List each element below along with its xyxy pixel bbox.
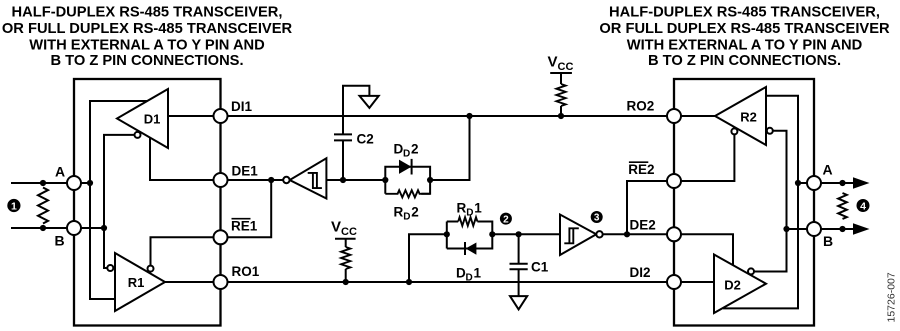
wire bus A right	[798, 182, 854, 184]
svg-text:HALF-DUPLEX RS-485 TRANSCEIVER: HALF-DUPLEX RS-485 TRANSCEIVER,	[609, 5, 880, 21]
svg-text:DI2: DI2	[630, 265, 651, 280]
wire bus B right	[787, 228, 855, 230]
label RE1 with overline	[231, 219, 258, 234]
title text left	[2, 5, 293, 70]
junction C2/U1 input	[340, 177, 346, 183]
resistor left termination	[38, 188, 48, 224]
receiver R1	[115, 253, 165, 311]
junction RD2 network to data line	[466, 113, 472, 119]
node 3 marker	[591, 211, 603, 224]
parallel network loop RD1/DD1	[447, 222, 493, 249]
U2 output bubble	[596, 231, 602, 237]
svg-text:4: 4	[860, 200, 866, 212]
wire network to U2 input	[492, 233, 560, 235]
junction C1 tap	[516, 231, 522, 237]
svg-text:DE2: DE2	[630, 218, 656, 233]
svg-text:V: V	[331, 219, 341, 236]
resistor Vcc pull-up bottom	[341, 239, 350, 282]
svg-text:DI1: DI1	[231, 99, 253, 114]
wire RE1 tie to DE1 node	[228, 180, 272, 237]
node 4 marker	[857, 199, 870, 212]
wire RE2 to R2 enable	[674, 134, 734, 181]
svg-text:CC: CC	[341, 226, 357, 238]
svg-text:C2: C2	[357, 132, 374, 147]
svg-text:OR FULL DUPLEX RS-485 TRANSCEI: OR FULL DUPLEX RS-485 TRANSCEIVER	[599, 21, 890, 37]
pin B (transceiver 1)	[67, 221, 81, 235]
diode DD1	[465, 242, 476, 255]
junction DE1/RE1 tie	[268, 177, 274, 183]
parallel network loop DD2/RD2	[385, 167, 430, 194]
ground symbol (C2)	[360, 96, 379, 108]
pin A (transceiver 1)	[67, 176, 81, 190]
svg-text:A: A	[822, 162, 832, 178]
R1 enable bubble	[148, 266, 154, 272]
svg-text:A: A	[55, 164, 65, 180]
svg-text:R2: R2	[740, 110, 757, 125]
svg-text:2: 2	[503, 214, 509, 225]
Vcc supply bottom	[331, 219, 357, 239]
pin RE2	[667, 174, 681, 188]
wire bus B left	[11, 227, 104, 229]
svg-text:R1: R1	[128, 275, 145, 290]
svg-text:1: 1	[474, 266, 482, 281]
wire U2 output to DE2	[603, 233, 667, 235]
svg-text:CC: CC	[558, 61, 574, 73]
junction B net	[101, 225, 107, 231]
svg-text:R: R	[394, 205, 404, 220]
junction B net right	[783, 226, 789, 232]
junction network left	[382, 177, 388, 183]
D2 inverting output bubble	[748, 268, 754, 274]
svg-text:V: V	[548, 54, 558, 71]
svg-text:DE1: DE1	[232, 164, 259, 179]
pin RO2	[667, 109, 681, 123]
pin RE1	[214, 230, 228, 244]
wire RO1 line to RD1 network	[409, 234, 447, 282]
transceiver 2 box	[674, 79, 814, 326]
svg-text:WITH EXTERNAL A TO Y PIN AND: WITH EXTERNAL A TO Y PIN AND	[627, 37, 863, 53]
junction DE2/RE2 tie	[624, 231, 630, 237]
arrow B right	[853, 223, 870, 234]
R2 inverting input bubble	[767, 128, 773, 134]
svg-text:B TO Z PIN CONNECTIONS.: B TO Z PIN CONNECTIONS.	[50, 53, 243, 69]
svg-text:B: B	[54, 233, 64, 249]
svg-text:1: 1	[11, 200, 17, 212]
wire D1 inverted output Z to B net and R1 inverting input	[104, 135, 134, 268]
svg-text:RO2: RO2	[627, 99, 655, 114]
transceiver 1 box	[74, 79, 221, 326]
wire network to data line	[430, 116, 469, 180]
svg-text:3: 3	[594, 213, 600, 224]
svg-text:B: B	[823, 233, 833, 249]
resistor right termination	[838, 193, 847, 219]
wire C2 to ground hook	[343, 86, 369, 135]
junction network right	[427, 177, 433, 183]
resistor RD2	[385, 190, 430, 197]
svg-text:15726-007: 15726-007	[886, 272, 898, 322]
junction A-resistor right	[839, 180, 845, 186]
junction Vcc pull-up to data line	[558, 113, 564, 119]
wire R2 output to RO2	[674, 115, 715, 117]
wire bus A left	[11, 182, 90, 184]
svg-text:C1: C1	[531, 260, 549, 275]
arrow A right	[853, 177, 870, 188]
wire D1 output Y to A net and R1 input	[90, 101, 148, 299]
svg-text:2: 2	[411, 142, 419, 157]
junction A-resistor	[40, 180, 46, 186]
node 1 marker	[7, 199, 20, 212]
title text right	[599, 5, 890, 70]
wire R2 inverting input B net and D2 inverted output Z	[754, 131, 786, 272]
junction RD1 network left	[444, 231, 450, 237]
node 2 marker	[500, 213, 512, 226]
label DD1	[456, 266, 482, 284]
pin DI2	[667, 275, 681, 289]
svg-text:B TO Z PIN CONNECTIONS.: B TO Z PIN CONNECTIONS.	[648, 53, 841, 69]
U2 hysteresis glyph	[564, 228, 579, 243]
svg-text:HALF-DUPLEX RS-485 TRANSCEIVER: HALF-DUPLEX RS-485 TRANSCEIVER,	[12, 5, 283, 21]
junction B-resistor right	[839, 226, 845, 232]
resistor Vcc pull-up top	[556, 73, 565, 116]
wire DE1 to D1 enable	[150, 138, 221, 180]
svg-text:2: 2	[411, 205, 419, 220]
D1 inverting output bubble	[135, 132, 141, 138]
svg-text:D2: D2	[724, 278, 741, 293]
ground symbol (C1)	[510, 296, 527, 309]
wire U1 output to DE1/RE1 tie	[228, 179, 284, 181]
resistor RD1	[458, 217, 477, 226]
pin DI1	[214, 109, 228, 123]
driver D2	[714, 255, 766, 314]
schmitt trigger U2	[560, 215, 596, 256]
svg-text:D: D	[466, 208, 473, 219]
label RE2 with overline	[628, 162, 654, 177]
svg-text:D1: D1	[144, 112, 161, 127]
svg-text:1: 1	[474, 201, 482, 216]
junction Vcc pull-up bottom	[343, 279, 349, 285]
R2 enable bubble	[731, 128, 737, 134]
junction B-resistor	[40, 225, 46, 231]
label RD1	[457, 201, 483, 219]
junction A net	[87, 180, 93, 186]
wire DE2 to D2 enable	[674, 234, 733, 265]
svg-text:R: R	[457, 201, 467, 216]
svg-text:D: D	[403, 149, 410, 160]
svg-text:OR FULL DUPLEX RS-485 TRANSCEI: OR FULL DUPLEX RS-485 TRANSCEIVER	[2, 21, 293, 37]
wire RO1 to DI2 data line	[228, 281, 668, 283]
receiver R2	[715, 87, 766, 145]
U1 output bubble	[283, 177, 289, 183]
junction A net right	[795, 180, 801, 186]
svg-text:D: D	[403, 212, 410, 223]
label RD2	[394, 205, 419, 223]
svg-text:RO1: RO1	[232, 264, 260, 279]
svg-text:D: D	[394, 142, 404, 157]
svg-text:D: D	[466, 273, 473, 284]
pin B (transceiver 2)	[807, 222, 821, 236]
svg-text:D: D	[456, 266, 466, 281]
svg-text:WITH EXTERNAL A TO Y PIN AND: WITH EXTERNAL A TO Y PIN AND	[29, 37, 265, 53]
wire DI2 to D2 input	[674, 281, 714, 283]
pin RO1	[214, 275, 228, 289]
svg-text:RE1: RE1	[231, 219, 258, 234]
diode DD2	[399, 159, 412, 175]
U1 hysteresis glyph	[308, 173, 322, 188]
pin DE1	[214, 173, 228, 187]
wire DE2 node to RE2	[627, 181, 667, 234]
wire U1 input node	[326, 179, 385, 181]
wire DI1 to RO2 data line	[228, 115, 668, 117]
label DD2	[394, 142, 419, 160]
driver D1	[117, 89, 168, 148]
capacitor C2	[334, 134, 352, 180]
wire R2 input A net and D2 output Y	[723, 96, 798, 309]
junction RD1 network right	[489, 231, 495, 237]
junction RD1 network branch	[406, 279, 412, 285]
pin DE2	[667, 227, 681, 241]
wire R1 output to RO1	[165, 281, 221, 283]
Vcc supply top	[548, 54, 574, 74]
wire RE1 to R1 enable	[151, 237, 221, 265]
wire D1 input from DI1	[168, 115, 221, 117]
svg-text:RE2: RE2	[628, 162, 654, 177]
pin A (transceiver 2)	[807, 176, 821, 190]
capacitor C1	[510, 234, 528, 296]
R1 inverting input bubble	[107, 265, 113, 271]
schmitt inverter U1	[290, 158, 327, 198]
